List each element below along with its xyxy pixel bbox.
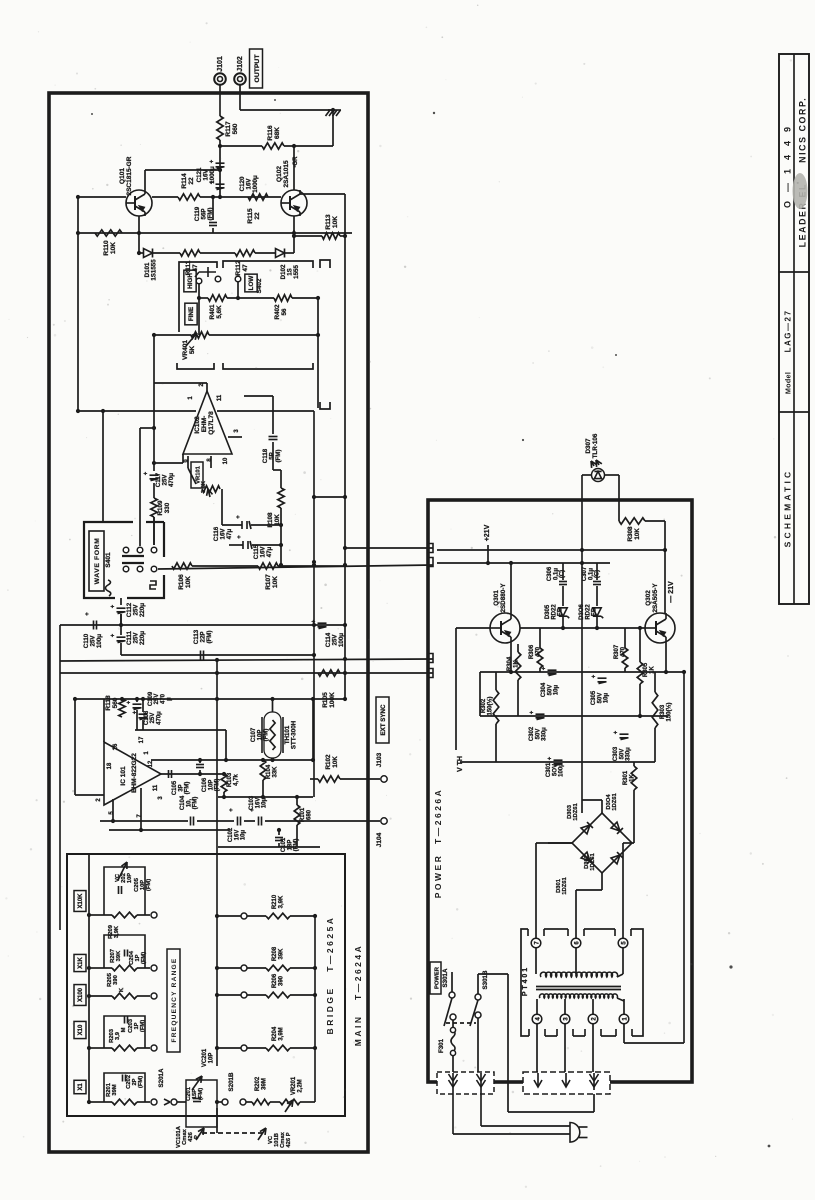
svg-text:(FM): (FM) [207, 207, 214, 220]
svg-text:10K: 10K [634, 528, 641, 540]
svg-text:+: + [592, 674, 598, 678]
svg-text:EHM-: EHM- [201, 416, 208, 433]
svg-text:1K: 1K [513, 659, 519, 667]
svg-text:68K: 68K [274, 127, 281, 139]
svg-text:P T 4 0 1: P T 4 0 1 [522, 968, 529, 996]
svg-text:C307: C307 [582, 566, 588, 581]
svg-text:Q102: Q102 [276, 166, 283, 182]
svg-text:(FM): (FM) [193, 797, 199, 810]
svg-text:+: + [236, 515, 242, 519]
svg-text:EB: EB [592, 607, 598, 616]
svg-text:C302: C302 [529, 726, 535, 741]
svg-text:X10K: X10K [78, 893, 84, 909]
svg-text:R101: R101 [300, 807, 306, 822]
svg-text:470: 470 [620, 646, 626, 657]
svg-text:680: 680 [306, 809, 312, 820]
svg-text:47μ: 47μ [226, 528, 233, 539]
svg-text:1DZ61: 1DZ61 [573, 803, 579, 821]
svg-text:10K: 10K [332, 756, 339, 768]
svg-text:R306: R306 [529, 644, 535, 659]
svg-text:C102: C102 [228, 827, 234, 842]
svg-text:16V: 16V [234, 830, 240, 841]
svg-text:R114: R114 [181, 173, 188, 189]
svg-text:2SC1815-GR: 2SC1815-GR [126, 156, 133, 195]
svg-text:100μ: 100μ [96, 634, 103, 648]
svg-text:C301: C301 [546, 762, 552, 777]
svg-text:10P: 10P [257, 730, 263, 741]
svg-text:J101: J101 [217, 56, 224, 72]
svg-text:470μ: 470μ [168, 473, 175, 487]
svg-text:R110: R110 [103, 240, 110, 256]
svg-text:S402: S402 [256, 278, 263, 293]
svg-text:50V: 50V [619, 749, 625, 760]
svg-text:18: 18 [107, 762, 113, 769]
svg-text:17: 17 [139, 736, 145, 743]
svg-text:C106: C106 [202, 777, 208, 792]
svg-text:+: + [542, 666, 548, 670]
svg-text:10: 10 [223, 457, 229, 464]
svg-text:100K: 100K [329, 692, 336, 708]
svg-text:+: + [85, 612, 91, 616]
svg-text:22: 22 [254, 212, 261, 220]
svg-text:S301B: S301B [482, 970, 489, 989]
svg-text:0,1μ: 0,1μ [588, 568, 594, 580]
svg-text:FINE: FINE [188, 307, 195, 321]
svg-text:390: 390 [278, 975, 284, 986]
svg-text:S201A: S201A [158, 1068, 165, 1087]
svg-text:+: + [111, 604, 117, 608]
svg-text:EB: EB [558, 607, 564, 616]
svg-text:+: + [127, 700, 133, 704]
svg-text:LEADER EL NICS CORP.: LEADER EL NICS CORP. [798, 97, 808, 248]
svg-text:M: M [121, 1027, 127, 1032]
svg-text:25V: 25V [150, 713, 156, 724]
svg-text:OUTPUT: OUTPUT [254, 54, 261, 83]
svg-text:C305: C305 [591, 690, 597, 705]
svg-text:5K: 5K [189, 346, 196, 355]
svg-text:1000μ: 1000μ [209, 166, 216, 184]
svg-text:50V: 50V [547, 685, 553, 696]
svg-text:47: 47 [242, 264, 249, 272]
svg-text:56: 56 [281, 308, 288, 316]
svg-text:C306: C306 [547, 566, 553, 581]
svg-text:STT-300H: STT-300H [291, 720, 298, 749]
svg-text:TLR-106: TLR-106 [592, 433, 599, 458]
svg-text:S401: S401 [105, 552, 112, 568]
svg-text:2SA505-Y: 2SA505-Y [652, 583, 659, 613]
svg-text:390: 390 [113, 975, 119, 985]
svg-text:25V: 25V [154, 694, 160, 705]
svg-text:S201B: S201B [228, 1072, 235, 1091]
svg-text:Q101: Q101 [119, 168, 126, 184]
svg-text:R206: R206 [272, 973, 278, 988]
svg-text:O—1449: O—1449 [783, 118, 793, 208]
svg-text:33K: 33K [272, 766, 278, 778]
svg-text:X100: X100 [78, 987, 84, 1002]
svg-text:100μ: 100μ [338, 633, 345, 647]
svg-text:VR201: VR201 [291, 1076, 297, 1095]
svg-text:V TH: V TH [457, 756, 464, 772]
svg-text:C107: C107 [251, 727, 257, 742]
svg-text:R307: R307 [614, 644, 620, 659]
svg-text:J103: J103 [376, 752, 383, 767]
svg-text:+: + [614, 730, 620, 734]
svg-text:(FM): (FM) [140, 1020, 146, 1032]
svg-text:FREQUENCY RANGE: FREQUENCY RANGE [171, 958, 178, 1043]
svg-text:1K: 1K [629, 773, 635, 781]
svg-text:50V: 50V [597, 693, 603, 704]
svg-text:X10: X10 [78, 1024, 84, 1035]
svg-text:10μ: 10μ [554, 685, 560, 696]
svg-text:R107: R107 [265, 574, 272, 590]
svg-text:+: + [530, 710, 536, 714]
svg-text:R202: R202 [255, 1076, 261, 1091]
svg-text:39K: 39K [116, 950, 122, 961]
svg-text:1DZ61: 1DZ61 [612, 793, 618, 811]
svg-text:Q17L78: Q17L78 [208, 411, 215, 435]
svg-text:39K: 39K [278, 948, 284, 960]
svg-text:16V: 16V [255, 798, 261, 809]
svg-text:10P: 10P [208, 1053, 214, 1064]
svg-text:RD22: RD22 [551, 604, 557, 620]
svg-text:C109: C109 [148, 691, 154, 706]
svg-text:1000μ: 1000μ [252, 175, 259, 193]
svg-text:J102: J102 [237, 56, 244, 72]
svg-text:470μ: 470μ [156, 711, 162, 725]
svg-text:11: 11 [153, 784, 159, 791]
svg-text:R115: R115 [247, 208, 254, 224]
svg-text:R112: R112 [235, 260, 242, 276]
svg-text:5,6K: 5,6K [216, 305, 223, 319]
svg-text:1S1555: 1S1555 [151, 259, 158, 281]
svg-text:10μ: 10μ [241, 830, 247, 841]
svg-text:R204: R204 [272, 1026, 278, 1041]
svg-text:R118: R118 [105, 695, 112, 711]
svg-text:330μ: 330μ [626, 747, 632, 761]
svg-text:R104: R104 [266, 764, 272, 779]
svg-text:10μ: 10μ [604, 693, 610, 704]
svg-text:560: 560 [112, 697, 119, 708]
svg-text:10K: 10K [185, 576, 192, 588]
svg-text:330: 330 [164, 502, 171, 513]
svg-text:+: + [210, 159, 216, 163]
svg-text:(FM): (FM) [275, 449, 282, 462]
svg-text:J104: J104 [376, 832, 383, 847]
svg-text:POWER: POWER [435, 966, 441, 989]
svg-text:330μ: 330μ [542, 727, 548, 741]
svg-text:POWER T—2626A: POWER T—2626A [433, 788, 443, 899]
svg-text:C108: C108 [144, 710, 150, 725]
svg-text:426 P: 426 P [286, 1132, 292, 1147]
svg-text:2SD880-Y: 2SD880-Y [500, 583, 507, 613]
svg-text:10K: 10K [332, 216, 339, 228]
svg-text:12: 12 [148, 760, 154, 767]
svg-text:(FM): (FM) [264, 729, 270, 742]
svg-text:C303: C303 [613, 746, 619, 761]
svg-text:LOW: LOW [248, 276, 255, 291]
svg-text:10μ: 10μ [262, 798, 268, 809]
svg-text:1DZ61: 1DZ61 [590, 853, 596, 871]
svg-text:μ: μ [167, 697, 173, 701]
svg-text:(FM): (FM) [185, 782, 191, 795]
svg-text:47μ: 47μ [266, 546, 273, 557]
svg-text:— 21V: — 21V [668, 581, 675, 603]
svg-text:2,2M: 2,2M [297, 1079, 303, 1092]
svg-text:C105: C105 [172, 780, 178, 795]
svg-text:WAVE FORM: WAVE FORM [94, 538, 101, 585]
svg-text:C104: C104 [180, 795, 186, 810]
svg-text:R117: R117 [225, 121, 232, 137]
svg-text:(FM): (FM) [146, 879, 152, 891]
svg-text:(FM): (FM) [206, 630, 213, 643]
svg-text:D305: D305 [545, 604, 551, 619]
svg-text:EHM-822G22: EHM-822G22 [131, 753, 138, 793]
svg-text:1DZ61: 1DZ61 [562, 877, 568, 895]
svg-text:C103: C103 [249, 795, 255, 810]
svg-text:X1: X1 [78, 1083, 84, 1091]
svg-text:Model: Model [784, 372, 793, 394]
svg-text:3P: 3P [178, 784, 184, 791]
svg-text:R303: R303 [660, 704, 666, 719]
svg-text:1555: 1555 [293, 265, 300, 279]
svg-text:IC 101: IC 101 [120, 766, 127, 786]
svg-text:470: 470 [535, 646, 541, 657]
svg-text:R301: R301 [623, 770, 629, 785]
svg-text:SCHEMATIC: SCHEMATIC [783, 469, 793, 548]
svg-text:3,9K: 3,9K [278, 895, 284, 908]
svg-text:0,1μ: 0,1μ [553, 568, 559, 580]
svg-text:(FM): (FM) [138, 1076, 144, 1088]
svg-text:R305: R305 [643, 662, 649, 677]
svg-text:(FM): (FM) [198, 1088, 204, 1100]
svg-text:R103: R103 [227, 772, 233, 787]
svg-text:10P: 10P [127, 873, 133, 883]
svg-text:LAG—27: LAG—27 [784, 310, 793, 353]
svg-text:560: 560 [232, 123, 239, 134]
svg-text:C101: C101 [281, 837, 287, 852]
svg-text:C304: C304 [541, 682, 547, 697]
svg-text:+: + [111, 633, 117, 637]
svg-text:MAIN T—2624A: MAIN T—2624A [353, 944, 363, 1047]
svg-text:18P: 18P [287, 840, 293, 851]
svg-text:S301A: S301A [442, 968, 449, 987]
svg-text:(FM): (FM) [141, 952, 147, 964]
svg-text:R113: R113 [325, 214, 332, 230]
svg-text:2SA1015: 2SA1015 [283, 160, 290, 187]
svg-text:3,9M: 3,9M [278, 1027, 284, 1040]
svg-text:+: + [144, 471, 150, 475]
svg-text:X1K: X1K [78, 956, 84, 968]
svg-text:R116: R116 [267, 125, 274, 141]
svg-text:470: 470 [160, 693, 166, 704]
svg-text:11: 11 [217, 394, 223, 401]
svg-text:+21V: +21V [484, 524, 491, 541]
svg-text:10,: 10, [186, 798, 192, 807]
svg-text:39M: 39M [112, 1084, 118, 1095]
svg-text:100μ: 100μ [559, 763, 565, 777]
svg-text:R304: R304 [507, 656, 513, 671]
svg-text:R106: R106 [178, 574, 185, 590]
svg-text:+: + [237, 535, 243, 539]
svg-text:10K: 10K [272, 576, 279, 588]
svg-text:HIGH: HIGH [187, 273, 194, 289]
svg-text:+: + [548, 756, 554, 760]
svg-text:10P: 10P [208, 780, 214, 791]
svg-text:+: + [229, 808, 235, 812]
svg-text:R302: R302 [481, 698, 487, 713]
svg-text:39M: 39M [261, 1078, 267, 1090]
svg-text:RD22: RD22 [585, 604, 591, 620]
svg-text:3,9K: 3,9K [114, 925, 120, 938]
svg-text:BRIDGE T—2625A: BRIDGE T—2625A [325, 916, 335, 1035]
svg-text:50V: 50V [535, 729, 541, 740]
svg-text:R210: R210 [272, 894, 278, 909]
svg-text:150(½): 150(½) [486, 696, 493, 715]
svg-text:F301: F301 [438, 1038, 445, 1053]
svg-text:(FM): (FM) [294, 839, 300, 852]
svg-text:10K: 10K [110, 242, 117, 254]
svg-text:4,7k: 4,7k [233, 774, 239, 786]
svg-text:150(½): 150(½) [665, 702, 672, 721]
svg-text:IC102: IC102 [194, 416, 201, 434]
svg-text:EXT SYNC: EXT SYNC [380, 704, 387, 735]
svg-text:16: 16 [113, 743, 119, 750]
svg-text:VC201: VC201 [202, 1048, 208, 1067]
svg-text:5OV: 5OV [552, 764, 558, 776]
svg-text:22: 22 [188, 177, 195, 185]
svg-text:VR401: VR401 [182, 340, 189, 360]
svg-text:220μ: 220μ [139, 603, 146, 617]
svg-text:220μ: 220μ [139, 631, 146, 645]
